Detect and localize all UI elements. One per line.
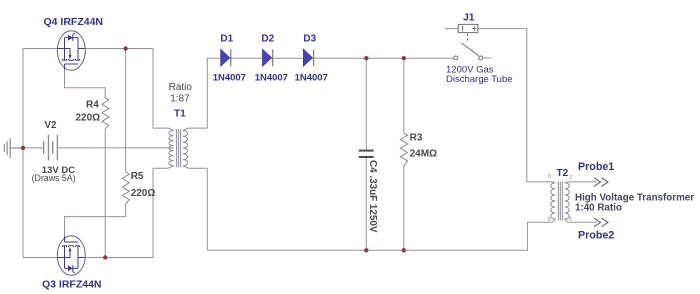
T1 bottom rail <box>153 167 207 169</box>
wire T1 right bottom to bottom rail <box>206 168 208 250</box>
node C4 top <box>364 56 368 60</box>
wire Q4 source row left <box>23 48 58 50</box>
svg-text:T2: T2 <box>557 168 569 179</box>
diode D2 <box>263 49 273 66</box>
wire T1 right to diode row <box>206 58 208 128</box>
ground <box>4 138 23 158</box>
wire C4 vertical top <box>365 58 367 150</box>
T1 top rail <box>153 127 207 129</box>
resistor R4 <box>102 98 109 129</box>
capacitor C4 <box>359 151 374 157</box>
T1 secondary winding <box>183 128 188 168</box>
T2 core <box>558 182 562 221</box>
svg-text:1N4007: 1N4007 <box>213 72 246 83</box>
T2 primary winding <box>551 182 555 222</box>
svg-text:0: 0 <box>548 174 551 180</box>
svg-text:C4 .33uF 1250V: C4 .33uF 1250V <box>367 160 378 233</box>
battery V2 <box>44 135 58 161</box>
wire R3 vertical bottom <box>403 166 405 250</box>
T1 primary winding <box>168 128 173 168</box>
svg-text:Probe1: Probe1 <box>578 161 614 173</box>
svg-text:5: 5 <box>548 217 551 223</box>
node R3 bottom <box>402 248 406 252</box>
svg-text:D2: D2 <box>261 34 274 45</box>
svg-text:Ratio: Ratio <box>169 82 193 93</box>
svg-text:V2: V2 <box>45 120 58 131</box>
svg-text:1N4007: 1N4007 <box>295 72 328 83</box>
wire Q3 source row <box>23 257 58 259</box>
wire R3 vertical top <box>403 58 405 133</box>
switch S1 (gas tube gap) <box>454 34 483 60</box>
svg-text:Probe2: Probe2 <box>578 229 614 241</box>
probe2 arrow <box>594 218 608 227</box>
svg-text:1:40 Ratio: 1:40 Ratio <box>575 203 622 214</box>
svg-text:R5: R5 <box>131 171 144 182</box>
svg-text:R3: R3 <box>410 133 423 144</box>
svg-text:24MΩ: 24MΩ <box>410 149 437 160</box>
node Q4 drain / R5 <box>123 46 127 50</box>
svg-text:1N4007: 1N4007 <box>255 72 288 83</box>
svg-text:1:87: 1:87 <box>170 94 190 105</box>
wire T2 probe2 lead <box>568 221 597 223</box>
transistor Q4 <box>57 31 85 71</box>
wire C4 vertical bottom <box>365 157 367 250</box>
diode D1 <box>221 49 231 66</box>
connector J1 <box>458 24 478 32</box>
wire T2 probe1 lead <box>568 181 597 183</box>
T2 secondary winding <box>565 182 569 222</box>
svg-text:Q3 IRFZ44N: Q3 IRFZ44N <box>42 279 102 291</box>
resistor R5 <box>122 172 129 204</box>
wire R4 bottom to Q3 drain row <box>104 129 106 258</box>
svg-text:T1: T1 <box>174 109 186 120</box>
svg-text:(Draws 5A): (Draws 5A) <box>32 173 76 183</box>
diode D3 <box>303 49 313 66</box>
svg-text:Q4 IRFZ44N: Q4 IRFZ44N <box>44 16 104 28</box>
wire bottom rail <box>207 222 552 250</box>
node C4 bottom <box>364 248 368 252</box>
resistor R3 <box>401 133 408 166</box>
wire R5 top from Q4 drain junction <box>125 49 127 172</box>
wire R5 bottom jog to Q3 gate <box>65 204 126 237</box>
probe1 arrow <box>594 178 608 187</box>
wire J1 left lead <box>445 28 458 30</box>
node R3 top <box>402 56 406 60</box>
transformer T2 <box>551 182 569 223</box>
wire Q4 drain row to T1 <box>85 49 153 129</box>
wire Q3 drain row to T1 <box>85 168 153 257</box>
T1 core <box>177 129 181 167</box>
wire ground rail vertical <box>22 49 24 258</box>
svg-text:220Ω: 220Ω <box>131 188 156 199</box>
wire switch right stub <box>482 57 491 59</box>
node Q3 drain / R4 <box>103 255 107 259</box>
wire Q4 gate jog to R4 <box>65 70 106 98</box>
wire battery row / T1 center tap <box>10 147 174 149</box>
svg-text:D1: D1 <box>220 34 233 45</box>
svg-text:3: 3 <box>569 217 572 223</box>
wire diode row rail <box>207 57 454 59</box>
wire J1 right to T2 top <box>478 29 552 182</box>
svg-text:2: 2 <box>569 175 572 181</box>
transformer T1 <box>153 128 207 168</box>
svg-text:R4: R4 <box>86 100 99 111</box>
node battery/ground junction <box>21 146 25 150</box>
svg-text:220Ω: 220Ω <box>76 113 101 124</box>
svg-text:Discharge Tube: Discharge Tube <box>446 74 513 85</box>
transistor Q3 <box>57 236 85 276</box>
svg-text:J1: J1 <box>463 13 475 24</box>
svg-text:D3: D3 <box>303 34 316 45</box>
